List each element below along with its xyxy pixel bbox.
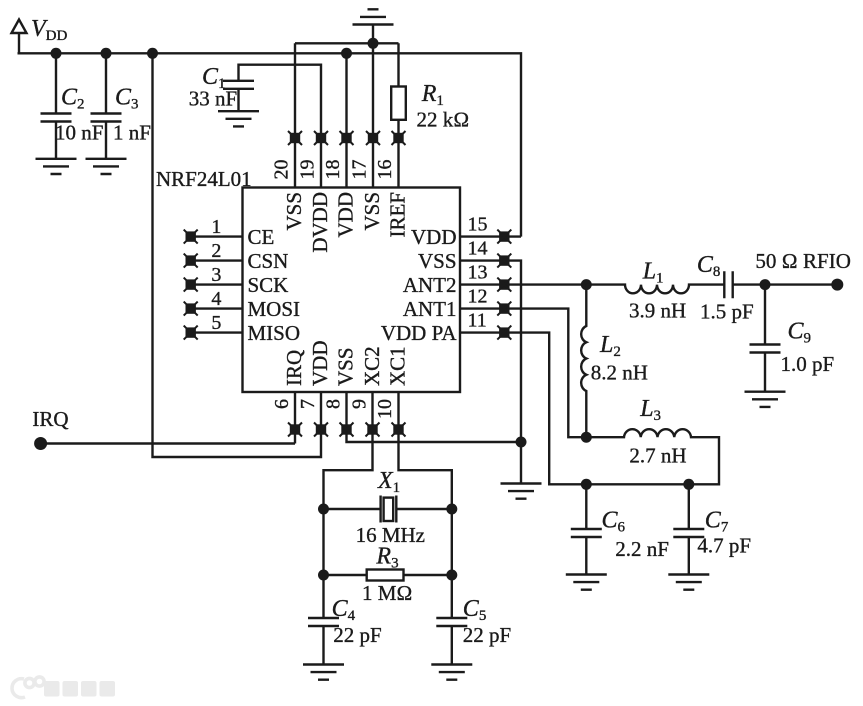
svg-text:3.9 nH: 3.9 nH <box>629 299 686 323</box>
svg-text:22 pF: 22 pF <box>463 623 511 647</box>
pin marker 2 <box>184 254 198 268</box>
wire pin8 VSS <box>347 392 522 442</box>
svg-text:VDD PA: VDD PA <box>381 321 457 345</box>
svg-text:VDD: VDD <box>411 225 457 249</box>
capacitor C3 <box>91 53 122 159</box>
svg-text:17: 17 <box>349 160 371 180</box>
svg-text:VDD: VDD <box>308 341 332 387</box>
capacitor C7 <box>673 484 704 574</box>
inductor L3 <box>586 429 719 484</box>
pin 2 wire <box>191 259 243 261</box>
wire RFIO out <box>765 283 837 285</box>
svg-text:33 nF: 33 nF <box>189 87 237 111</box>
svg-text:7: 7 <box>297 399 319 409</box>
pin marker 3 <box>184 278 198 292</box>
pin marker 17 <box>366 131 380 145</box>
node X1 left <box>318 504 329 515</box>
resistor R3 <box>324 570 452 581</box>
svg-text:19: 19 <box>297 160 319 180</box>
pin marker 16 <box>392 131 406 145</box>
wire X1 right to R3 <box>451 509 453 575</box>
terminal RFIO <box>831 279 843 291</box>
wire IRQ net <box>41 442 295 444</box>
svg-text:3: 3 <box>211 264 221 286</box>
ground VSS <box>501 484 542 499</box>
svg-text:DVDD: DVDD <box>308 192 332 253</box>
pin marker 12 <box>497 302 511 316</box>
svg-text:15: 15 <box>468 213 488 235</box>
pin marker 9 <box>366 423 380 437</box>
wire X1 left to R3 <box>322 509 324 575</box>
capacitor C8 <box>724 271 765 298</box>
ground C9 <box>745 392 786 407</box>
svg-text:2: 2 <box>211 240 221 262</box>
pin marker 10 <box>392 423 406 437</box>
svg-text:10: 10 <box>374 399 396 419</box>
ground C7 <box>668 575 709 590</box>
svg-text:MOSI: MOSI <box>248 297 301 321</box>
capacitor C4 <box>308 575 339 665</box>
crystal X1 <box>324 496 452 523</box>
IC U1 NRF24L01 body <box>243 188 461 393</box>
svg-text:1 MΩ: 1 MΩ <box>362 581 413 605</box>
node C7 <box>683 479 694 490</box>
pin marker 8 <box>340 423 354 437</box>
pin marker 4 <box>184 302 198 316</box>
wire VDD rail <box>18 53 522 236</box>
svg-text:9: 9 <box>349 399 371 409</box>
node R3 left <box>318 570 329 581</box>
svg-text:2.7 nH: 2.7 nH <box>629 444 686 468</box>
wire pin9 XC2 <box>324 392 373 509</box>
node C6 <box>581 479 592 490</box>
svg-text:4: 4 <box>211 288 221 310</box>
svg-text:IREF: IREF <box>386 192 410 238</box>
svg-text:5: 5 <box>211 312 221 334</box>
ground C5 <box>431 665 472 680</box>
node R3 right <box>446 570 457 581</box>
pin 5 wire <box>191 331 243 333</box>
svg-text:50 Ω RFIO: 50 Ω RFIO <box>755 249 850 273</box>
capacitor C1 <box>223 81 254 111</box>
inductor L1 <box>586 285 724 294</box>
pin 13 wire ANT2 <box>460 283 586 285</box>
VDD power symbol <box>12 20 27 54</box>
svg-text:IRQ: IRQ <box>32 407 68 431</box>
svg-text:4.7 pF: 4.7 pF <box>697 534 751 558</box>
wire top ground bus <box>295 42 399 44</box>
node ANT2 L1 L2 <box>581 279 592 290</box>
svg-text:MISO: MISO <box>248 321 301 345</box>
svg-text:20: 20 <box>271 160 293 180</box>
svg-text:NRF24L01: NRF24L01 <box>156 167 252 191</box>
svg-text:CE: CE <box>248 225 275 249</box>
inductor L2 <box>581 285 586 438</box>
svg-text:10 nF: 10 nF <box>55 121 103 145</box>
capacitor C5 <box>436 575 467 665</box>
svg-text:1.5 pF: 1.5 pF <box>700 300 754 324</box>
svg-text:CSN: CSN <box>248 249 289 273</box>
svg-text:ANT1: ANT1 <box>403 297 457 321</box>
pin 4 wire <box>191 307 243 309</box>
wire pin18 VDD <box>345 53 347 187</box>
pin marker 11 <box>497 326 511 340</box>
svg-text:16: 16 <box>374 160 396 180</box>
pin 11 wire VDD_PA <box>460 333 586 485</box>
pin marker 15 <box>497 230 511 244</box>
ground C4 <box>303 665 344 680</box>
node top ground <box>368 38 379 49</box>
wire pin10 XC1 <box>399 392 452 509</box>
svg-text:13: 13 <box>468 261 488 283</box>
svg-text:1 nF: 1 nF <box>113 121 151 145</box>
svg-text:22 kΩ: 22 kΩ <box>417 108 470 132</box>
svg-text:VSS: VSS <box>334 347 358 386</box>
node VDD-C2 <box>51 48 62 59</box>
watermark text <box>44 681 115 697</box>
resistor R1 <box>391 43 406 187</box>
pin marker 20 <box>288 131 302 145</box>
svg-text:IRQ: IRQ <box>282 350 306 386</box>
pin marker 13 <box>497 278 511 292</box>
node VDD-C3 <box>101 48 112 59</box>
svg-text:ANT2: ANT2 <box>403 273 457 297</box>
svg-text:11: 11 <box>468 309 487 331</box>
svg-text:22 pF: 22 pF <box>333 623 381 647</box>
svg-text:2.2 nF: 2.2 nF <box>615 537 669 561</box>
svg-text:1.0 pF: 1.0 pF <box>781 352 835 376</box>
pin marker 7 <box>314 423 328 437</box>
ground C3 <box>86 159 127 174</box>
pin marker 6 <box>288 423 302 437</box>
ground C1 <box>218 111 259 126</box>
wire VSS ground stem <box>520 442 522 484</box>
capacitor C9 <box>750 285 781 392</box>
wire VDD to pin7 <box>153 53 322 457</box>
wire pin20 VSS <box>294 43 296 187</box>
wire pin6 IRQ <box>294 392 296 444</box>
ground C2 <box>36 159 77 174</box>
capacitor C6 <box>571 484 602 574</box>
pin 14 wire VSS to ground <box>460 261 521 442</box>
pin 3 wire <box>191 283 243 285</box>
svg-text:VDD: VDD <box>334 192 358 238</box>
svg-text:14: 14 <box>468 237 488 259</box>
node VDD-branch <box>147 48 158 59</box>
pin marker 19 <box>314 131 328 145</box>
node ANT1 L3 <box>581 432 592 443</box>
ground top inverted <box>353 9 394 43</box>
pin 12 wire ANT1 <box>460 309 586 438</box>
ground C6 <box>566 575 607 590</box>
svg-text:XC2: XC2 <box>360 346 384 386</box>
svg-text:8.2 nH: 8.2 nH <box>591 361 648 385</box>
capacitor C2 <box>41 53 72 159</box>
svg-text:1: 1 <box>211 216 221 238</box>
svg-text:VSS: VSS <box>282 192 306 231</box>
wire VDD_PA bus <box>586 483 689 485</box>
svg-text:18: 18 <box>322 160 344 180</box>
watermark logo <box>12 677 44 698</box>
wire pin17 VSS <box>372 43 374 187</box>
svg-text:VSS: VSS <box>360 192 384 231</box>
svg-text:12: 12 <box>468 285 488 307</box>
pin marker 1 <box>184 230 198 244</box>
svg-text:6: 6 <box>271 399 293 409</box>
terminal IRQ <box>34 437 47 450</box>
node VSS ground <box>516 437 527 448</box>
wire pin19 to C1 <box>239 65 322 188</box>
node VDD-pin18 <box>341 48 352 59</box>
pin 1 wire <box>191 235 243 237</box>
pin marker 5 <box>184 326 198 340</box>
pin marker 18 <box>340 131 354 145</box>
svg-text:VSS: VSS <box>418 249 457 273</box>
node RFIO <box>760 279 771 290</box>
node X1 right <box>446 504 457 515</box>
pin 15 wire <box>460 235 521 237</box>
svg-text:8: 8 <box>323 399 345 409</box>
svg-text:SCK: SCK <box>248 273 289 297</box>
svg-text:XC1: XC1 <box>386 346 410 386</box>
pin marker 14 <box>497 254 511 268</box>
